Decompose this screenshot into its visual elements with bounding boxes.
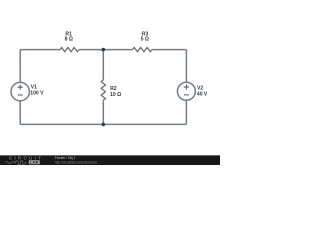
V1 plus sign	[18, 85, 23, 90]
voltage source V2	[177, 82, 195, 100]
resistor R2	[101, 80, 105, 100]
watermark bar	[0, 155, 220, 165]
wire right bottom lead	[185, 100, 187, 124]
svg-text:8 Ω: 8 Ω	[65, 36, 73, 42]
svg-text:5 Ω: 5 Ω	[141, 37, 149, 43]
logo LAB box	[29, 160, 40, 164]
V2 minus sign	[184, 94, 189, 96]
wire bottom segment	[20, 123, 186, 125]
svg-text:40 V: 40 V	[197, 92, 208, 98]
svg-text:R2: R2	[110, 86, 117, 92]
resistor R3	[133, 48, 152, 52]
V2 plus sign	[184, 84, 189, 89]
wire middle bottom lead	[102, 100, 104, 124]
node junction top	[102, 48, 106, 52]
voltage source V1	[11, 82, 29, 100]
svg-text:http://circuitlab.com/c/k2wnsm: http://circuitlab.com/c/k2wnsm	[55, 160, 98, 164]
logo waveform	[5, 161, 26, 164]
resistor R1	[60, 48, 79, 52]
svg-text:LAB: LAB	[30, 160, 39, 164]
svg-text:V1: V1	[31, 85, 37, 91]
wire top-left segment	[20, 49, 60, 51]
wire top-right segment	[152, 49, 186, 51]
svg-text:100 V: 100 V	[30, 91, 44, 97]
V1 minus sign	[18, 94, 23, 96]
svg-text:Flocker / Obj 1: Flocker / Obj 1	[55, 156, 76, 160]
wire left bottom lead	[19, 101, 21, 125]
node junction bottom	[102, 123, 106, 127]
wire top-middle segment	[79, 49, 133, 51]
wire right top lead	[185, 50, 187, 83]
wire left top lead	[19, 50, 21, 83]
svg-text:10 Ω: 10 Ω	[110, 92, 121, 98]
logo CircuitLab wordmark	[5, 156, 43, 165]
wire middle top lead	[102, 50, 104, 80]
